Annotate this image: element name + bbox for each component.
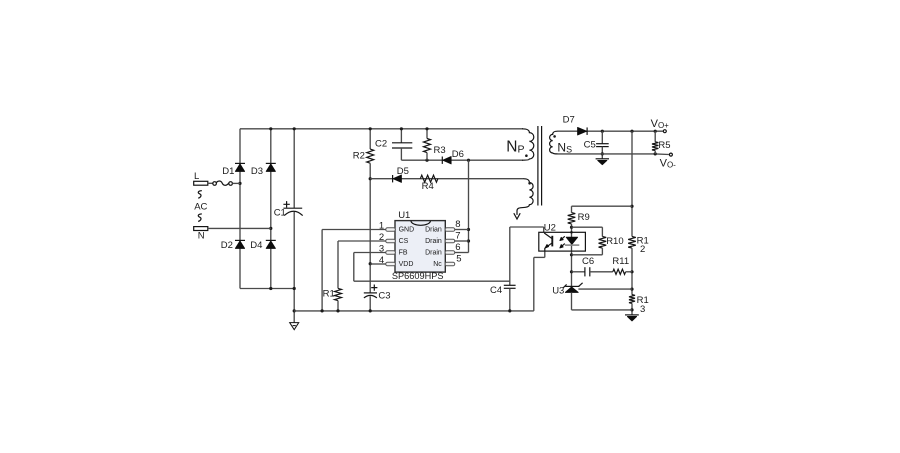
svg-text:U2: U2 — [544, 222, 556, 233]
svg-text:Nc: Nc — [433, 261, 442, 268]
svg-text:Drain: Drain — [425, 238, 442, 245]
svg-text:8: 8 — [455, 219, 460, 230]
svg-text:R10: R10 — [606, 236, 623, 247]
svg-text:U1: U1 — [398, 210, 410, 221]
svg-text:R2: R2 — [353, 151, 365, 162]
svg-text:D3: D3 — [251, 166, 263, 177]
svg-text:D4: D4 — [250, 240, 262, 251]
svg-text:3: 3 — [379, 244, 384, 255]
svg-text:C6: C6 — [582, 256, 594, 267]
svg-text:R5: R5 — [658, 140, 670, 151]
svg-text:FB: FB — [399, 250, 408, 257]
svg-text:2: 2 — [379, 232, 384, 243]
svg-text:CS: CS — [399, 238, 409, 245]
svg-text:R3: R3 — [434, 145, 446, 156]
svg-text:D6: D6 — [452, 149, 464, 160]
svg-text:Drian: Drian — [425, 227, 442, 234]
svg-text:7: 7 — [455, 231, 460, 242]
svg-text:D7: D7 — [563, 114, 575, 125]
svg-text:U3: U3 — [552, 285, 564, 296]
svg-text:AC: AC — [194, 202, 207, 213]
svg-text:D5: D5 — [397, 166, 409, 177]
svg-text:L: L — [194, 171, 199, 182]
svg-text:C3: C3 — [378, 291, 390, 302]
svg-text:N: N — [198, 231, 205, 242]
svg-text:C1: C1 — [274, 208, 286, 219]
svg-text:2: 2 — [640, 244, 645, 255]
svg-text:GND: GND — [399, 227, 415, 234]
svg-text:Drain: Drain — [425, 250, 442, 257]
svg-text:D2: D2 — [221, 240, 233, 251]
svg-text:C2: C2 — [375, 139, 387, 150]
svg-text:C4: C4 — [490, 285, 502, 296]
svg-text:C5: C5 — [584, 140, 596, 151]
svg-text:D1: D1 — [222, 166, 234, 177]
svg-text:R1: R1 — [323, 288, 335, 299]
svg-text:3: 3 — [640, 304, 645, 315]
svg-text:R9: R9 — [578, 212, 590, 223]
svg-text:5: 5 — [456, 253, 461, 264]
svg-text:R4: R4 — [422, 181, 434, 192]
svg-text:R11: R11 — [612, 256, 629, 267]
svg-text:1: 1 — [379, 221, 384, 232]
svg-text:4: 4 — [379, 255, 384, 266]
svg-text:SP6609HPS: SP6609HPS — [392, 271, 444, 281]
svg-text:VDD: VDD — [399, 261, 414, 268]
svg-text:6: 6 — [455, 242, 460, 253]
